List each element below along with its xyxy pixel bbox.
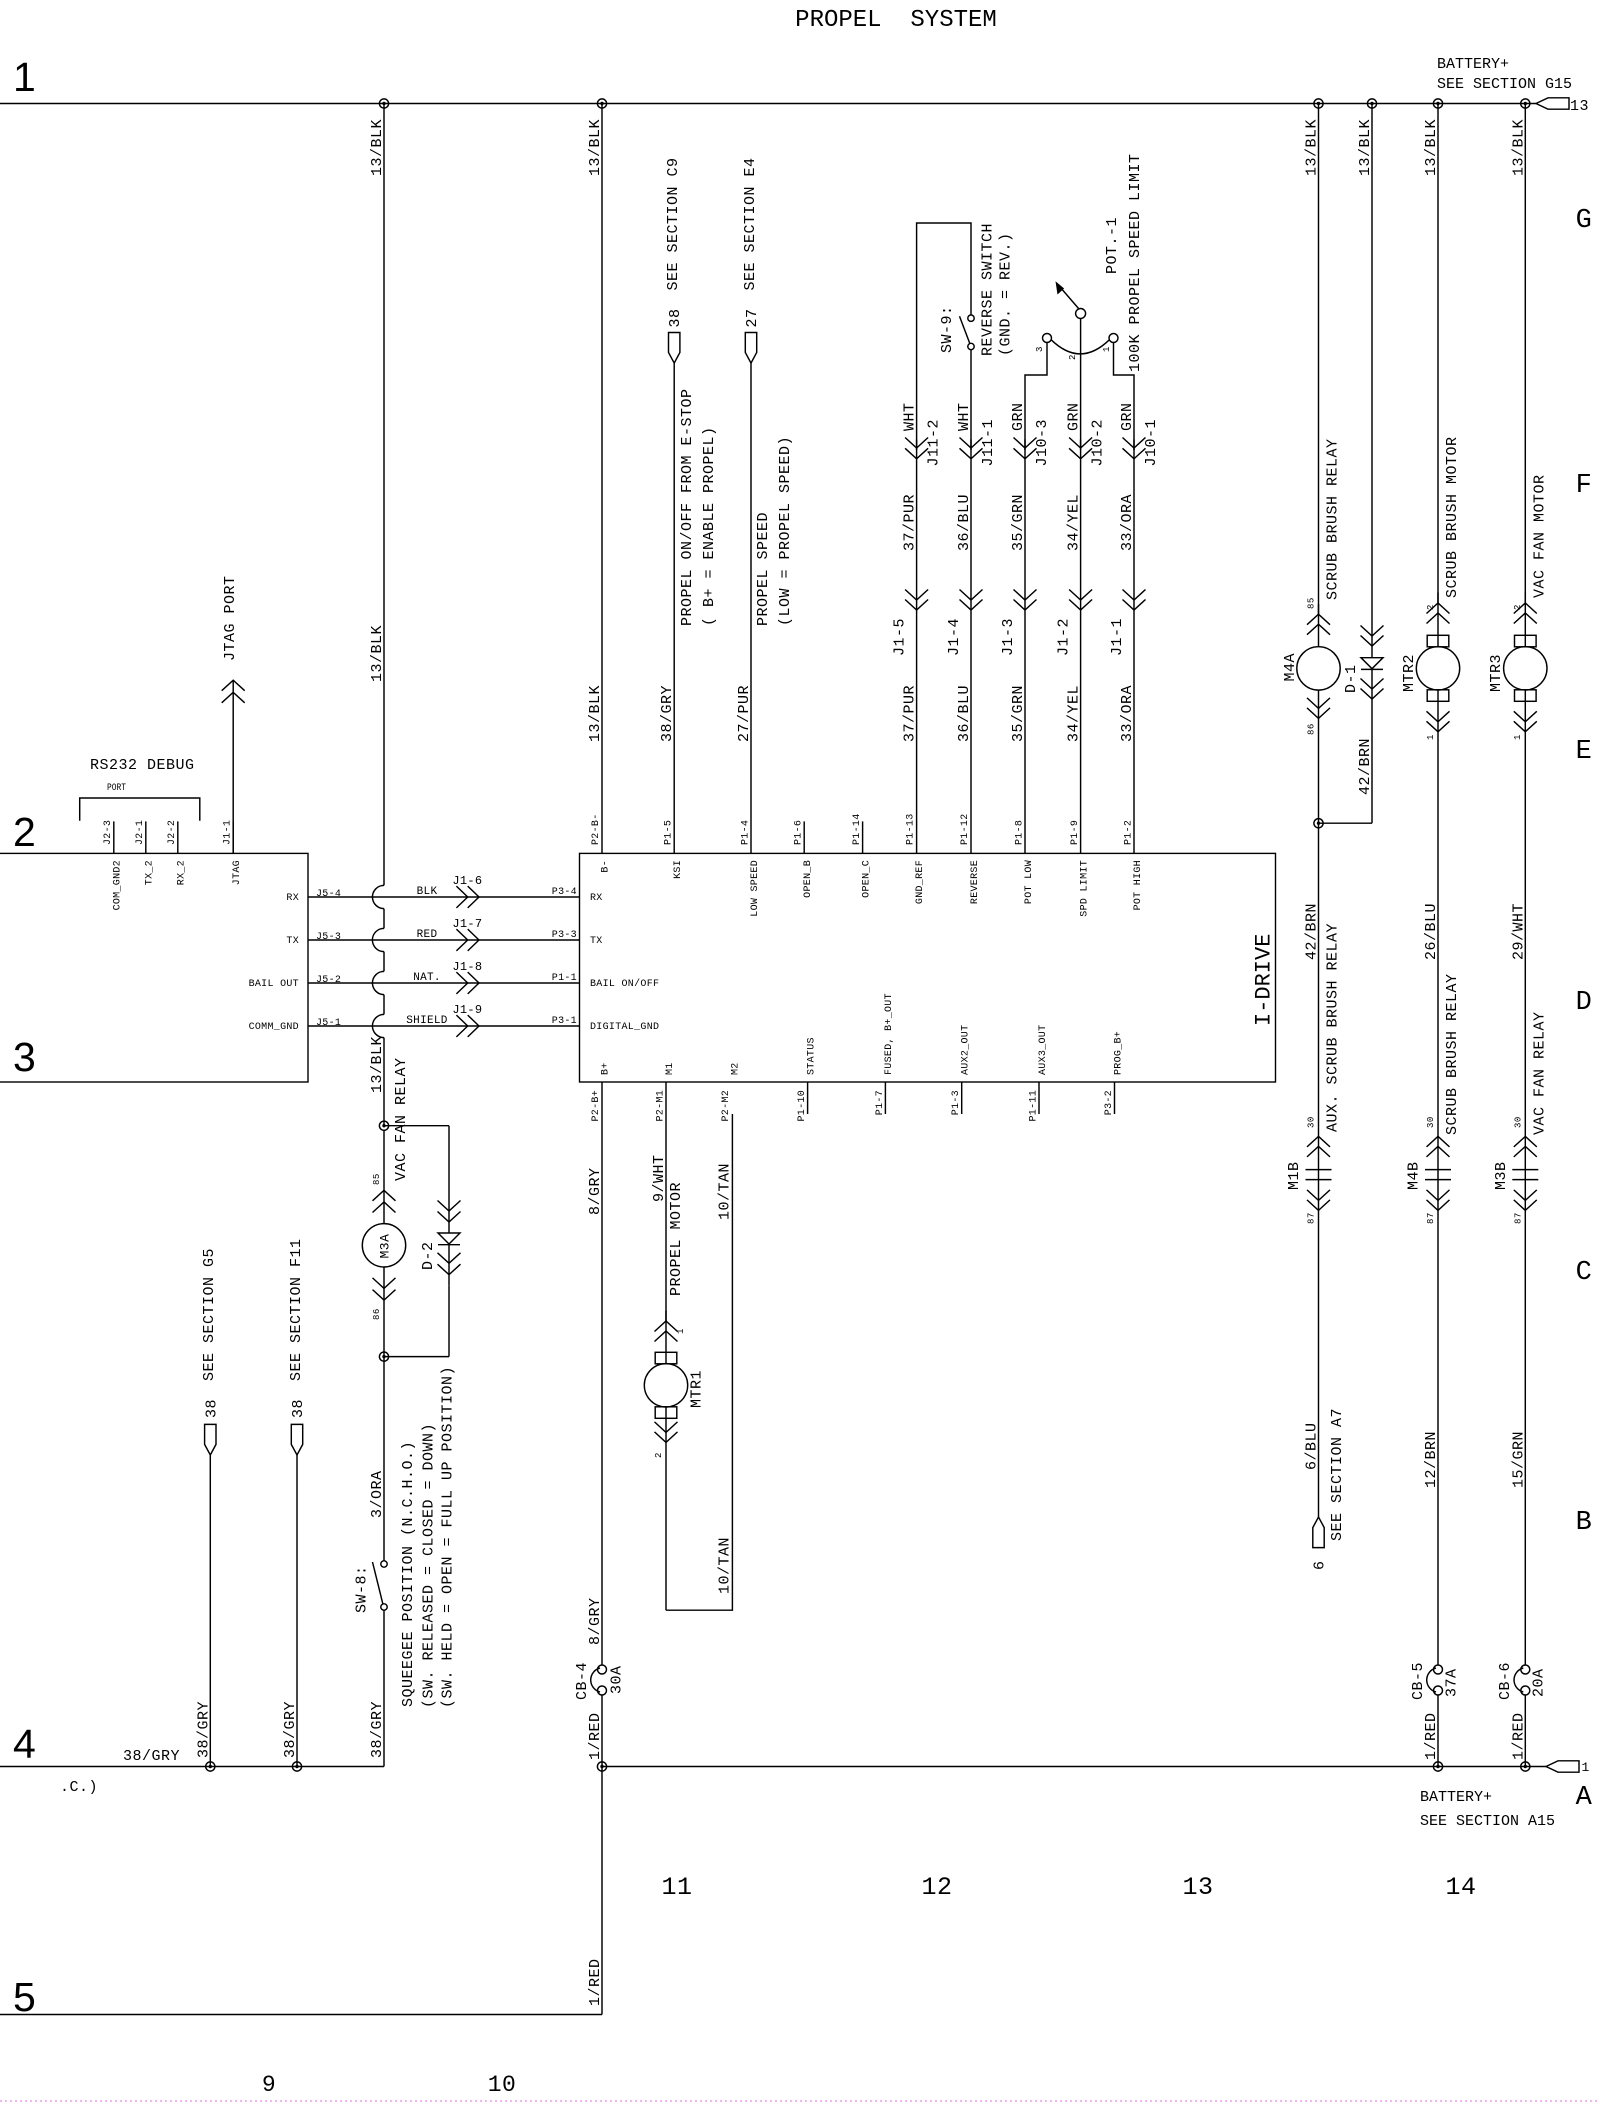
svg-text:RX_2: RX_2 [177,860,188,885]
svg-text:P1-7: P1-7 [875,1090,886,1115]
svg-text:12/BRN: 12/BRN [1423,1431,1440,1488]
svg-text:SEE SECTION E4: SEE SECTION E4 [742,157,759,290]
svg-text:1: 1 [1102,346,1112,352]
grid column number 11 [661,1873,692,1902]
pin 1 of MTR3 [1513,734,1523,740]
svg-text:35/GRN: 35/GRN [1010,685,1027,742]
svg-text:J2-3: J2-3 [103,820,114,845]
pin P1-1 (BAIL ON/OFF) of I-DRIVE [552,973,660,990]
svg-text:I-DRIVE: I-DRIVE [1251,934,1276,1026]
terminal 27 SEE SECTION E4 [745,333,756,364]
svg-text:WHT: WHT [902,402,919,431]
label J1-4 [946,618,963,656]
svg-text:38/GRY: 38/GRY [369,1701,386,1758]
svg-text:1: 1 [1582,1760,1590,1775]
label 37/PUR lower [902,685,919,742]
label 42/BRN (D-1) [1357,738,1374,795]
node junction battery bus / CB-5 [1433,1762,1442,1771]
label 38 (F11 flag) [290,1399,307,1418]
pin P1-2 (POT HIGH) of I-DRIVE [1123,820,1144,911]
label 12/BRN [1423,1431,1440,1488]
wire 37/PUR J11-2 to J1-5 [916,440,918,854]
terminal 6 see section A7 [1313,1517,1324,1548]
svg-text:RX: RX [590,893,603,904]
svg-text:P3-2: P3-2 [1104,1090,1115,1115]
svg-text:M4B: M4B [1406,1161,1423,1190]
wire 15/GRN M3B to CB-6 [1524,1210,1526,1665]
pin 1 of MTR1 [676,1328,686,1334]
motor MTR1 [644,1311,687,1611]
svg-text:5: 5 [13,1974,36,2020]
svg-text:P1-8: P1-8 [1014,820,1025,845]
svg-text:J1-2: J1-2 [1056,618,1073,656]
pin J2-3 (COM_GND2) of RS232 port [103,820,124,911]
label NAT. [413,972,441,984]
label I-DRIVE [1251,934,1276,1026]
svg-text:B-: B- [601,860,612,873]
junction top bus / 13BLK-A [379,99,388,108]
label J1-6 [452,874,482,888]
svg-text:33/ORA: 33/ORA [1119,494,1136,551]
svg-text:PORT: PORT [107,783,126,794]
svg-text:8/GRY: 8/GRY [587,1167,604,1215]
potentiometer POT.-1 body [1043,309,1119,354]
grid column number 10 [488,2072,517,2098]
connector JTAG PORT arrow [222,680,245,853]
connector J11-2 [905,438,928,459]
label J1-5 [892,618,909,656]
svg-text:J1-1: J1-1 [223,820,234,845]
grid row number 5 [13,1974,36,2020]
node junction 38GRY/G5 [206,1762,215,1771]
wire NAT. J5-2 to P1-1 [308,982,580,984]
connector J1-7 [456,929,479,951]
wire CB-4 to row5 [601,1695,603,2015]
svg-text:38/GRY: 38/GRY [123,1748,180,1765]
label J1-3 [1000,618,1017,656]
svg-text:34/YEL: 34/YEL [1066,494,1083,551]
svg-text:CB-6: CB-6 [1497,1662,1514,1700]
label 13/BLK lower of vac fan relay wire [369,1036,386,1093]
svg-text:CB-4: CB-4 [574,1662,591,1700]
svg-text:PROG_B+: PROG_B+ [1113,1031,1124,1075]
label 33/ORA upper [1119,494,1136,551]
label M3B [1493,1161,1510,1190]
wire SW-8 to 38/GRY bus [383,1610,385,1767]
svg-text:TX: TX [590,936,603,947]
svg-text:SQUEEGEE POSITION (N.C.H.O.): SQUEEGEE POSITION (N.C.H.O.) [400,1441,417,1707]
label GRN (J10-3) [1010,402,1027,431]
label 38/GRY (F11 wire) [282,1701,299,1758]
svg-text:2: 2 [1513,604,1523,610]
label 13/BLK (D-1 wire) [1357,119,1374,176]
svg-text:13: 13 [1570,98,1589,115]
svg-text:A: A [1576,1783,1593,1813]
grid row letter F [1576,471,1593,501]
svg-text:P3-1: P3-1 [552,1016,577,1027]
svg-text:1/RED: 1/RED [1423,1712,1440,1760]
label J11-2 [926,419,943,467]
svg-text:AUX3_OUT: AUX3_OUT [1038,1025,1049,1075]
label 13/BLK lower (B- wire) [587,685,604,742]
svg-text:J1-5: J1-5 [892,618,909,656]
pin 1 of MTR2 [1426,734,1436,740]
label 27/PUR [736,685,753,742]
svg-text:AUX2_OUT: AUX2_OUT [961,1025,972,1075]
svg-text:FUSED, B+_OUT: FUSED, B+_OUT [884,993,895,1075]
wire 10/TAN MTR1 to P2-M2 [666,1114,732,1610]
pin 30 of M4B [1426,1116,1436,1128]
grid row number 3 [13,1034,36,1080]
svg-text:2: 2 [654,1452,664,1458]
pin 2 of MTR3 [1513,604,1523,610]
connector J10-1 [1123,438,1146,459]
junction top bus / D-1 branch [1367,99,1376,108]
label WHT (J11-2) [902,402,919,431]
pin 30 of M1B [1307,1116,1317,1128]
label 1/RED (CB-6) [1510,1712,1527,1760]
svg-text:P1-14: P1-14 [852,813,863,845]
label SEE SECTION C9 [665,157,682,290]
pin P1-10 (STATUS) of I-DRIVE [797,1037,818,1121]
terminal 38 SEE SECTION C9 [669,333,680,364]
label GRN (J10-2) [1066,402,1083,431]
svg-text:3/ORA: 3/ORA [369,1470,386,1518]
svg-text:P1-10: P1-10 [797,1090,808,1122]
svg-text:3: 3 [13,1034,36,1080]
pin P1-5 (KSI) of I-DRIVE [664,820,685,879]
svg-text:4: 4 [13,1721,36,1767]
svg-text:SCRUB BRUSH RELAY: SCRUB BRUSH RELAY [1325,438,1342,600]
wire top B+ bus [0,103,1536,105]
label REVERSE SWITCH [980,223,997,356]
svg-text:100K PROPEL SPEED LIMIT: 100K PROPEL SPEED LIMIT [1127,153,1144,372]
label SW-9: [939,305,956,353]
svg-text:(SW. RELEASED = CLOSED = DOWN): (SW. RELEASED = CLOSED = DOWN) [421,1423,438,1708]
grid column number 9 [262,2072,276,2098]
label JTAG PORT [222,575,239,661]
svg-text:2: 2 [1426,604,1436,610]
label RS232 DEBUG [90,757,195,774]
svg-text:12: 12 [921,1873,952,1902]
svg-text:D-1: D-1 [1343,664,1360,693]
label VAC FAN MOTOR [1531,474,1548,598]
label 9/WHT [651,1154,668,1202]
label 8/GRY upper [587,1167,604,1215]
svg-text:SCRUB BRUSH MOTOR: SCRUB BRUSH MOTOR [1444,436,1461,598]
label 38/GRY above SW-8 bus corner [369,1701,386,1758]
svg-text:30: 30 [1513,1116,1523,1128]
svg-text:P2-B+: P2-B+ [591,1090,602,1122]
svg-text:C: C [1576,1258,1593,1288]
svg-text:MTR2: MTR2 [1401,654,1418,692]
grid row letter A [1576,1783,1593,1813]
label 38 [667,308,684,327]
svg-text:TX_2: TX_2 [145,860,156,885]
svg-text:87: 87 [1513,1212,1523,1224]
connector J1-1 [1123,590,1146,611]
page edge marker [0,2100,1600,2102]
wire 34/YEL J10-2 to J1-2 [1080,440,1082,854]
label J10-3 [1034,419,1051,467]
connector J1-6 [456,886,479,908]
svg-text:30: 30 [1307,1116,1317,1128]
connector J1-4 [960,590,983,611]
relay coil M3A [362,1130,405,1357]
label 34/YEL upper [1066,494,1083,551]
svg-text:20A: 20A [1531,1668,1548,1697]
svg-text:POT HIGH: POT HIGH [1133,860,1144,910]
svg-text:M3B: M3B [1493,1161,1510,1190]
svg-text:M3A: M3A [377,1234,392,1259]
svg-text:13/BLK: 13/BLK [369,119,386,176]
label 36/BLU lower [956,685,973,742]
terminal 1 to section A15 [1546,1760,1590,1775]
relay contact M3B [1512,1136,1538,1210]
label VAC FAN RELAY (M3B) [1531,1011,1548,1135]
svg-text:2: 2 [13,809,36,855]
wire row5 line [0,2014,602,2016]
svg-text:1: 1 [13,54,36,100]
label 13/BLK top (B- wire) [587,119,604,176]
label D-2 [420,1241,437,1270]
label J1-7 [452,917,482,931]
svg-text:38/GRY: 38/GRY [195,1701,212,1758]
label 26/BLU [1423,903,1440,960]
connector J1-9 [456,1015,479,1037]
pin J5-3 (TX) of RS232 port [286,932,341,947]
svg-text:P1-4: P1-4 [740,820,751,845]
wire 35/GRN J10-3 to J1-3 [1024,440,1026,854]
svg-text:P2-M1: P2-M1 [655,1090,666,1122]
wire SW-9 bracket [917,223,971,450]
junction top bus / 13BLK-B [597,99,606,108]
svg-text:RED: RED [417,929,438,941]
wire M3A junction to SW-8 [383,1357,385,1561]
label (LOW = PROPEL SPEED) [777,436,794,626]
svg-text:STATUS: STATUS [807,1037,818,1075]
label CB-4 [574,1662,591,1700]
svg-text:DIGITAL_GND: DIGITAL_GND [590,1022,659,1033]
label PORT [107,783,126,794]
svg-text:J1-4: J1-4 [946,618,963,656]
svg-text:SW-8:: SW-8: [354,1565,371,1613]
label 10/TAN lower [717,1537,734,1594]
wire 9/WHT P2-M1 to MTR1 [665,1082,667,1321]
label SHIELD [406,1015,448,1027]
svg-text:PROPEL SPEED: PROPEL SPEED [755,512,772,626]
label 35/GRN upper [1010,494,1027,551]
pin P1-12 (REVERSE) of I-DRIVE [960,813,981,904]
label SW. HELD = OPEN = FULL UP POSITION [440,1366,457,1708]
label 13/BLK mid of vac fan relay wire [369,625,386,682]
svg-text:29/WHT: 29/WHT [1510,903,1527,960]
pin J2-1 (TX_2) of RS232 port [135,820,156,885]
label M3A [377,1234,392,1259]
label CB-6 [1497,1662,1514,1700]
svg-text:M4A: M4A [1282,653,1299,682]
grid row letter E [1576,737,1593,767]
motor MTR3 [1504,593,1547,1137]
svg-text:GRN: GRN [1066,402,1083,431]
svg-text:13/BLK: 13/BLK [369,1036,386,1093]
motor MTR2 [1416,593,1459,1137]
wire 27/PUR flag to I-DRIVE [750,363,752,853]
svg-text:P1-1: P1-1 [552,973,577,984]
controller U1 I-DRIVE box [580,853,1276,1082]
svg-text:36/BLU: 36/BLU [956,685,973,742]
pin P3-4 (RX) of I-DRIVE [552,887,603,904]
label M4A [1282,653,1299,682]
grid column number 12 [921,1873,952,1902]
wire pot pin3 to J10-3 [1025,343,1047,451]
svg-text:BATTERY+: BATTERY+ [1420,1789,1492,1806]
pin 85 of M3A [372,1173,382,1185]
label SW. RELEASED = CLOSED = DOWN [421,1423,438,1708]
svg-text:SCRUB BRUSH RELAY: SCRUB BRUSH RELAY [1444,973,1461,1135]
diode D-1 [1361,626,1384,710]
svg-text:27: 27 [744,308,761,327]
wire 13/BLK bus to I-DRIVE B- [601,104,603,854]
svg-text:10/TAN: 10/TAN [717,1537,734,1594]
pin 85 of M4A [1307,597,1317,609]
grid column number 14 [1445,1873,1476,1902]
label 38/GRY on bus [123,1748,180,1765]
terminal 38 see section G5 [205,1424,216,1455]
wire G5 flag to bus [209,1455,211,1767]
wire SHIELD J5-1 to P3-1 [308,1025,580,1027]
node junction battery bus / CB-4 [597,1762,606,1771]
pin 3 of POT.-1 [1035,346,1045,352]
svg-text:J1-3: J1-3 [1000,618,1017,656]
svg-text:38: 38 [290,1399,307,1418]
label 20A [1531,1668,1548,1697]
svg-text:J1-7: J1-7 [452,917,482,931]
svg-text:VAC FAN RELAY: VAC FAN RELAY [1531,1011,1548,1135]
label 30A [609,1665,626,1694]
svg-text:1/RED: 1/RED [587,1712,604,1760]
svg-text:SEE SECTION G5: SEE SECTION G5 [201,1248,218,1381]
label .C.) clipped text [60,1779,98,1796]
svg-text:SHIELD: SHIELD [406,1015,448,1027]
switch SW-9 [960,315,975,350]
connector J11-1 [960,438,983,459]
svg-text:9/WHT: 9/WHT [651,1154,668,1202]
label PROPEL MOTOR [668,1182,685,1296]
pin 1 of POT.-1 [1102,346,1112,352]
pin P2-B- (B-) of I-DRIVE [591,813,612,872]
pin P1-3 (AUX2_OUT) of I-DRIVE [951,1025,972,1116]
svg-text:38/GRY: 38/GRY [282,1701,299,1758]
wire pot pin1 to J10-1 [1114,343,1135,451]
svg-text:13/BLK: 13/BLK [587,119,604,176]
svg-text:1: 1 [1426,734,1436,740]
svg-text:VAC FAN RELAY: VAC FAN RELAY [393,1057,410,1181]
wire 6/BLU M1B to terminal 6 [1318,1210,1320,1517]
node junction 38GRY/F11 [292,1762,301,1771]
svg-text:J11-2: J11-2 [926,419,943,467]
connector J1-3 [1014,590,1037,611]
svg-text:SW-9:: SW-9: [939,305,956,353]
svg-text:85: 85 [1307,597,1317,609]
label J11-1 [980,419,997,467]
pin J5-4 (RX) of RS232 port [286,889,341,904]
title PROPEL SYSTEM [795,7,997,34]
connector J1-5 [905,590,928,611]
svg-text:J2-1: J2-1 [135,820,146,845]
label J10-1 [1143,419,1160,467]
label 8/GRY lower [587,1597,604,1645]
svg-text:37/PUR: 37/PUR [902,685,919,742]
label WHT (J11-1) [956,402,973,431]
wire 13/BLK bus to MTR3 [1524,104,1526,604]
pin P2-M1 (M1) of I-DRIVE [655,1062,676,1121]
label 6 [1312,1560,1329,1570]
label AUX. SCRUB BRUSH RELAY [1325,923,1342,1132]
svg-text:37A: 37A [1444,1668,1461,1697]
label (GND. = REV.) [998,232,1015,356]
svg-text:42/BRN: 42/BRN [1304,903,1321,960]
svg-text:NAT.: NAT. [413,972,441,984]
connector J10-3 [1014,438,1037,459]
svg-text:36/BLU: 36/BLU [956,494,973,551]
svg-text:1/RED: 1/RED [1510,1712,1527,1760]
svg-text:P1-3: P1-3 [951,1090,962,1115]
svg-text:M2: M2 [730,1062,741,1075]
label MTR3 [1488,654,1505,692]
wire 1/RED CB-5 to battery bus [1437,1695,1439,1767]
svg-text:MTR1: MTR1 [689,1370,706,1408]
pin 87 of M1B [1307,1212,1317,1224]
circuit breaker CB-4 [591,1665,607,1695]
svg-text:RX: RX [286,893,299,904]
terminal 13 to section G15 [1536,98,1589,115]
svg-text:WHT: WHT [956,402,973,431]
svg-text:87: 87 [1426,1212,1436,1224]
svg-text:PROPEL ON/OFF FROM E-STOP: PROPEL ON/OFF FROM E-STOP [679,388,696,626]
label SEE SECTION F11 [288,1238,305,1381]
pin P1-14 (OPEN_C) of I-DRIVE [852,813,873,897]
label SW-8: [354,1565,371,1613]
svg-text:(SW. HELD = OPEN = FULL UP POS: (SW. HELD = OPEN = FULL UP POSITION) [440,1366,457,1708]
label SEE SECTION G5 [201,1248,218,1381]
svg-text:JTAG: JTAG [232,860,243,885]
wire 38/GRY flag to I-DRIVE [673,363,675,853]
svg-text:J10-1: J10-1 [1143,419,1160,467]
pin P1-4 (LOW SPEED) of I-DRIVE [740,820,761,917]
svg-text:VAC FAN MOTOR: VAC FAN MOTOR [1531,474,1548,598]
pin 2 of MTR2 [1426,604,1436,610]
svg-text:J11-1: J11-1 [980,419,997,467]
svg-text:GND_REF: GND_REF [915,860,926,904]
junction top bus / vac fan motor branch [1521,99,1530,108]
svg-text:14: 14 [1445,1873,1476,1902]
wire RED J5-3 to P3-3 [308,939,580,941]
svg-text:J10-2: J10-2 [1090,419,1107,467]
svg-text:J5-4: J5-4 [316,889,341,900]
svg-text:87: 87 [1307,1212,1317,1224]
pin 87 of M4B [1426,1212,1436,1224]
pin P3-1 (DIGITAL_GND) of I-DRIVE [552,1016,660,1033]
svg-text:M1: M1 [665,1062,676,1075]
svg-text:37/PUR: 37/PUR [902,494,919,551]
node junction M3A/D-2 top [379,1121,388,1130]
svg-text:BAIL OUT: BAIL OUT [249,979,299,990]
svg-text:30A: 30A [609,1665,626,1694]
label 37/PUR upper [902,494,919,551]
svg-text:TX: TX [286,936,299,947]
grid row number 4 [13,1721,36,1767]
